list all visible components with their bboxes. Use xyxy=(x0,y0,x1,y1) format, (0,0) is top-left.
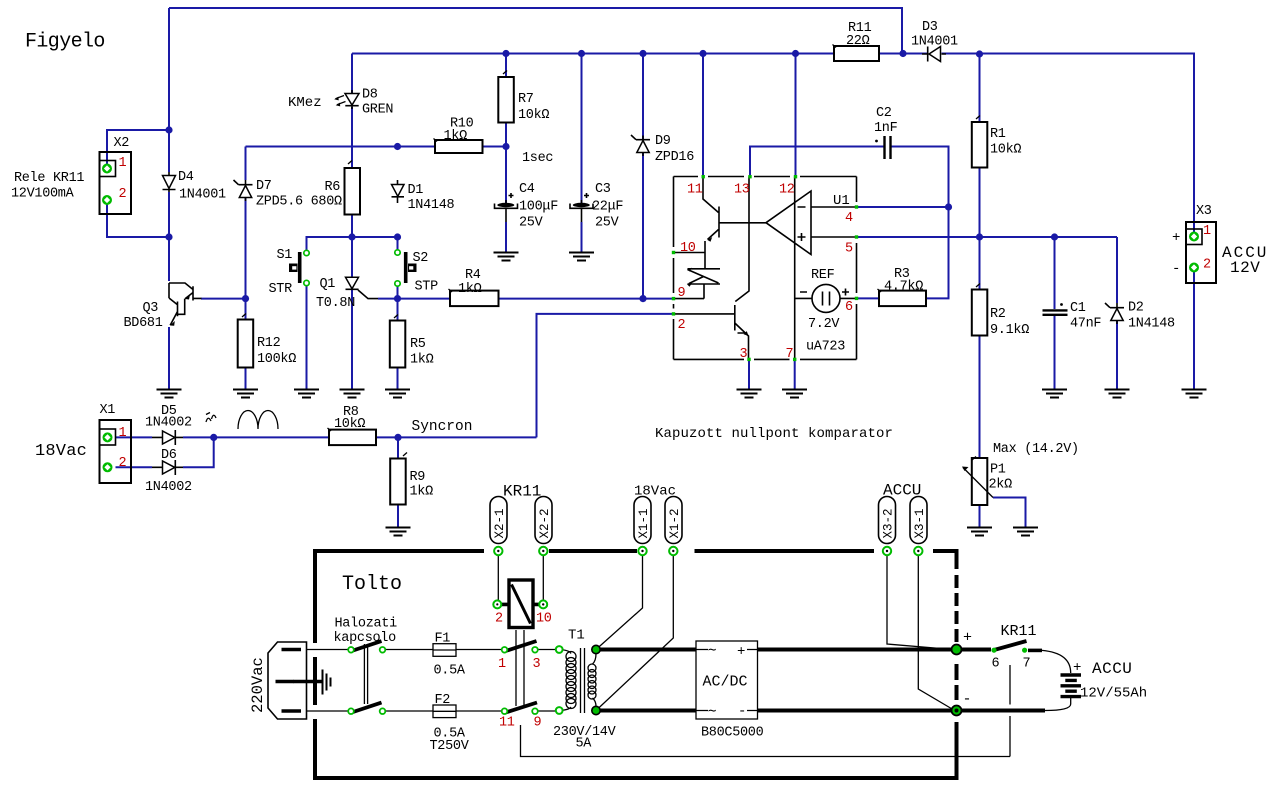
svg-text:2: 2 xyxy=(678,318,686,333)
wire R2 to P1 xyxy=(979,336,981,459)
wire D7 bottom lead crossing y237 xyxy=(245,198,247,299)
junction node rail-D9 xyxy=(639,50,646,57)
svg-text:1kΩ: 1kΩ xyxy=(444,129,468,144)
symbols layer xyxy=(100,45,1217,536)
half-wave glyph xyxy=(206,413,216,423)
ground U1 pin7 xyxy=(782,390,807,398)
pin X2-1 xyxy=(102,164,112,174)
wire U1 pin4 to feedback node xyxy=(857,206,949,208)
tolto layer xyxy=(268,549,1081,780)
pin U1-11 xyxy=(702,175,705,178)
svg-text:uA723: uA723 xyxy=(806,340,845,355)
wire node to R8 xyxy=(214,436,329,438)
wire C4 to ground xyxy=(505,222,507,253)
ground D2 xyxy=(1105,390,1130,398)
wire Syncron horizontal xyxy=(398,436,537,438)
220Vac plug body xyxy=(268,642,307,719)
svg-text:4.7kΩ: 4.7kΩ xyxy=(884,280,923,295)
thyristor Q1 xyxy=(346,277,379,298)
svg-text:47nF: 47nF xyxy=(1070,317,1101,332)
svg-text:1: 1 xyxy=(119,156,127,171)
wire X3-2 oval to plus node xyxy=(887,556,953,650)
pin S1 top xyxy=(304,250,309,255)
svg-text:100μF: 100μF xyxy=(519,200,558,215)
wire net y146 from D7 corner to R10 xyxy=(246,146,436,148)
resistor R3 xyxy=(878,289,927,306)
wire F1 to relay contact 1 xyxy=(456,649,501,651)
svg-text:10kΩ: 10kΩ xyxy=(334,417,365,432)
svg-text:5: 5 xyxy=(845,242,853,257)
wire R9 to ground xyxy=(397,505,399,528)
oval terminal X2-2 xyxy=(535,497,552,556)
junction node Q1 gate-R4-R5 xyxy=(394,295,401,302)
wire R7 top lead xyxy=(505,54,507,78)
U1 internal output transistor xyxy=(674,177,767,253)
svg-text:R9: R9 xyxy=(410,470,426,485)
fuse F1 xyxy=(433,644,456,657)
svg-text:D2: D2 xyxy=(1128,301,1144,316)
contact mains switch upper right xyxy=(380,647,386,653)
svg-text:5A: 5A xyxy=(576,737,593,752)
svg-text:R6: R6 xyxy=(325,180,341,195)
wire net y237 S1-to-S2 section xyxy=(307,237,398,253)
wire R7 bottom to C4 xyxy=(505,123,507,204)
wire U1 pin3 to ground xyxy=(748,359,750,389)
svg-text:S1: S1 xyxy=(277,248,293,263)
wire relay 3 to transformer xyxy=(538,649,556,651)
wire Q1 gate to node xyxy=(378,298,398,300)
pin U1-9 xyxy=(672,297,675,300)
svg-text:REF: REF xyxy=(811,268,835,283)
ground P1 wiper xyxy=(1013,528,1038,536)
wire U1 pin7 to ground xyxy=(794,359,796,389)
U1 internal lower transistor xyxy=(674,177,750,360)
svg-text:+: + xyxy=(737,644,745,660)
svg-text:KR11: KR11 xyxy=(503,483,541,501)
pin relay coil 2 xyxy=(493,600,501,608)
pin T1 primary top xyxy=(556,646,563,653)
junction node rail-R1 xyxy=(976,50,983,57)
potentiometer P1 xyxy=(962,457,993,506)
sine waveform symbol xyxy=(238,411,278,430)
wire R12 leads xyxy=(245,299,247,389)
relay mechanical link xyxy=(516,630,524,706)
contact mains switch upper left xyxy=(348,647,354,653)
svg-text:R12: R12 xyxy=(257,336,281,351)
pin T1 secondary top xyxy=(592,645,600,653)
wire D2 top lead xyxy=(1116,237,1118,303)
pin S1 bottom xyxy=(304,280,309,285)
wire D8 top lead xyxy=(351,54,353,94)
wire C2 right lead down to R3 corner xyxy=(891,147,949,299)
wire X1 pin1 to D5 xyxy=(116,436,153,438)
svg-text:6: 6 xyxy=(845,300,853,315)
switch KR11 contact lever xyxy=(994,641,1027,650)
battery ACCU 12V/55Ah xyxy=(1061,675,1082,697)
svg-text:R2: R2 xyxy=(990,307,1006,322)
ground X3 xyxy=(1182,390,1207,398)
connector X1 xyxy=(100,420,132,483)
wire Q3 base to node xyxy=(201,298,246,300)
svg-text:D3: D3 xyxy=(922,20,938,35)
switch S2 xyxy=(406,252,417,283)
pin T1 secondary bottom xyxy=(592,706,600,714)
wire D7 top lead xyxy=(245,147,247,181)
svg-text:∼: ∼ xyxy=(708,704,716,720)
fuse F2 xyxy=(433,705,456,718)
wire D9 bottom lead to pin9 node xyxy=(642,153,644,299)
wire X2 pin1 riser to top-rail junction xyxy=(107,130,169,169)
pin X3-2 xyxy=(1189,263,1199,273)
oval terminal X1-2 xyxy=(665,497,682,556)
wire X3-1 oval to minus node xyxy=(918,556,953,710)
svg-text:X1-2: X1-2 xyxy=(668,508,682,538)
wire battery minus to minus line xyxy=(1045,698,1071,711)
oval terminal X3-1 xyxy=(910,497,927,556)
ground C3 xyxy=(569,253,594,261)
svg-text:9: 9 xyxy=(534,716,542,731)
ground C4 xyxy=(494,253,519,261)
svg-text:10kΩ: 10kΩ xyxy=(518,108,549,123)
zener diode D7 xyxy=(234,180,253,201)
wire D6 to node riser xyxy=(183,437,214,467)
svg-text:1: 1 xyxy=(498,657,506,672)
wire X2-2 oval to relay pin10 xyxy=(542,556,544,604)
relay KR11 coil xyxy=(494,580,548,628)
transformer T1 core xyxy=(581,648,585,713)
wire Q1 anode xyxy=(351,237,353,277)
svg-text:ACCU: ACCU xyxy=(883,482,921,500)
wire main +rail y53.5 xyxy=(352,54,1194,237)
svg-text:Q1: Q1 xyxy=(320,277,336,292)
op-amp U1 triangle xyxy=(766,191,857,255)
svg-text:+: + xyxy=(963,630,972,647)
mains switch upper lever xyxy=(350,641,382,652)
junction node rail-pin11 xyxy=(699,50,706,57)
svg-text:7: 7 xyxy=(786,347,794,362)
wire U1 pin5 net y237 xyxy=(857,236,1118,238)
svg-text:1: 1 xyxy=(1203,224,1211,239)
resistor R10 xyxy=(434,139,483,154)
svg-text:3: 3 xyxy=(533,657,541,672)
wire R4 left lead xyxy=(398,298,451,300)
resistor R7 xyxy=(498,71,514,123)
wire D9 top lead xyxy=(642,54,644,140)
wire D4 column lower xyxy=(168,192,170,237)
wire switch to F2 xyxy=(385,710,433,712)
wire X1-2 oval to T1 xyxy=(596,556,673,711)
svg-text:Kapuzott nullpont komparator: Kapuzott nullpont komparator xyxy=(655,426,893,442)
mains switch link xyxy=(364,644,367,704)
wire P1 bottom to ground xyxy=(979,505,981,527)
zener diode D9 xyxy=(631,135,650,156)
svg-text:ZPD5.6 680Ω: ZPD5.6 680Ω xyxy=(256,195,342,210)
svg-text:1: 1 xyxy=(119,426,127,441)
svg-text:ACCU: ACCU xyxy=(1092,660,1132,678)
wire U1 pin12 column xyxy=(795,54,797,177)
svg-text:12V: 12V xyxy=(1230,259,1260,277)
svg-text:3: 3 xyxy=(740,347,748,362)
pin X2-2 xyxy=(102,195,112,205)
svg-text:10: 10 xyxy=(536,612,552,627)
wire D4 column upper xyxy=(168,8,170,172)
svg-text:D4: D4 xyxy=(178,170,194,185)
pin relay coil 10 xyxy=(539,600,547,608)
Tolto enclosure right edge dashed xyxy=(955,549,959,780)
wire relay link stub to minus net xyxy=(521,725,1011,757)
pin U1-7 xyxy=(793,358,796,361)
contact relay 11 xyxy=(502,708,508,714)
junction node D1-S2 y237 xyxy=(394,233,401,240)
junction node X2-D4-Q3 y237 xyxy=(165,233,172,240)
wire S2 top lead xyxy=(397,237,399,253)
ground Q3 xyxy=(157,390,182,398)
wire R9 top lead xyxy=(397,437,399,458)
ground R9 xyxy=(386,528,411,536)
relay contact upper lever xyxy=(504,641,537,652)
ground S1 xyxy=(294,390,319,398)
wire X1-1 oval to T1 xyxy=(596,556,643,650)
wire Syncron riser to U1 pin2 xyxy=(537,314,674,438)
svg-text:STP: STP xyxy=(415,280,439,295)
switch S1 xyxy=(289,252,300,283)
earth ground symbol xyxy=(323,670,331,695)
ground C1 xyxy=(1042,390,1067,398)
transformer T1 secondary winding xyxy=(588,654,596,707)
pin U1-5 xyxy=(855,235,858,238)
U1 internal sense resistor xyxy=(674,253,721,299)
svg-text:Syncron: Syncron xyxy=(412,419,473,435)
svg-text:R7: R7 xyxy=(518,92,534,107)
junction node rail-pin12 xyxy=(792,50,799,57)
svg-text:18Vac: 18Vac xyxy=(35,442,87,461)
junction node X2/top-rail xyxy=(165,126,172,133)
junction node rail-C3 xyxy=(578,50,585,57)
220Vac plug prongs xyxy=(276,650,302,712)
svg-text:GREN: GREN xyxy=(362,103,393,118)
svg-text:1N4002: 1N4002 xyxy=(145,480,192,495)
mains switch lower lever xyxy=(350,703,382,714)
svg-text:13: 13 xyxy=(734,183,750,198)
ground R12 xyxy=(233,390,258,398)
wire R10 right lead xyxy=(483,146,507,148)
junction node rail-topwire xyxy=(899,50,906,57)
resistor R12 xyxy=(238,314,254,368)
mains switch upper wire xyxy=(307,649,349,651)
wire contact7 region to minus net xyxy=(1009,665,1011,757)
svg-text:kapcsolo: kapcsolo xyxy=(334,631,397,646)
svg-text:X2-2: X2-2 xyxy=(538,508,552,538)
resistor R5 xyxy=(390,315,406,368)
svg-text:F2: F2 xyxy=(435,693,451,708)
svg-text:11: 11 xyxy=(687,183,703,198)
svg-text:X3-1: X3-1 xyxy=(913,508,927,538)
ground U1 pin3 xyxy=(737,390,762,398)
wire D8 to R6 crossing y146 xyxy=(351,107,353,168)
svg-text:1kΩ: 1kΩ xyxy=(410,353,434,368)
wire F2 to relay contact 11 xyxy=(456,710,501,712)
wire S1 bottom to ground xyxy=(306,283,308,389)
svg-text:ZPD16: ZPD16 xyxy=(655,150,694,165)
svg-text:D1: D1 xyxy=(408,183,424,198)
junction node R10-R7-C4 xyxy=(502,143,509,150)
resistor R8 xyxy=(328,428,377,445)
resistor R4 xyxy=(449,289,499,306)
svg-text:X3: X3 xyxy=(1196,204,1212,219)
pin X3-1 xyxy=(1189,232,1199,242)
svg-text:D9: D9 xyxy=(655,134,671,149)
pins layer xyxy=(102,164,1199,715)
svg-text:KR11: KR11 xyxy=(1001,623,1037,640)
svg-text:D6: D6 xyxy=(161,448,177,463)
connector X3 xyxy=(1186,222,1216,283)
wire Q3 emitter to ground xyxy=(168,327,170,389)
wire R6 bottom to node y237 xyxy=(351,215,353,238)
svg-text:F1: F1 xyxy=(435,632,451,647)
earth wire from plug xyxy=(293,680,322,684)
wire KR11 to battery plus xyxy=(1042,650,1071,673)
svg-text:12: 12 xyxy=(779,183,795,198)
pin T1 primary bottom xyxy=(556,707,563,714)
svg-text:2: 2 xyxy=(119,187,127,202)
junction node C2-pin4-R3 xyxy=(945,203,952,210)
svg-text:B80C5000: B80C5000 xyxy=(701,726,764,741)
svg-text:R1: R1 xyxy=(990,127,1006,142)
svg-text:R4: R4 xyxy=(465,268,481,283)
wire P1 wiper to ground xyxy=(993,498,1026,528)
relay contact lower lever xyxy=(504,703,537,714)
wire X3 pin2 to ground xyxy=(1193,268,1195,390)
resistor R9 xyxy=(390,453,407,505)
svg-text:Max (14.2V): Max (14.2V) xyxy=(993,442,1079,457)
diode D5 xyxy=(152,430,183,445)
wire U1 pin13 riser and C2 left lead xyxy=(750,147,885,177)
contact mains switch lower right xyxy=(380,708,386,714)
capacitor C3 xyxy=(570,193,593,222)
svg-text:1N4001: 1N4001 xyxy=(179,188,226,203)
diode D2 xyxy=(1105,303,1124,324)
junction node D5-D6 xyxy=(210,434,217,441)
Tolto enclosure bottom edge xyxy=(313,776,959,780)
junction node rail-R7 xyxy=(502,50,509,57)
wire top rail from X2 column to right descent xyxy=(169,8,902,54)
contact relay 9 xyxy=(532,708,538,714)
svg-text:11: 11 xyxy=(499,716,515,731)
pin U1-6 xyxy=(855,297,858,300)
svg-text:∼: ∼ xyxy=(708,643,716,659)
transistor Q3 xyxy=(169,283,202,326)
node plus xyxy=(952,645,962,655)
wire X1 pin2 to D6 xyxy=(116,466,153,468)
svg-text:4: 4 xyxy=(845,211,853,226)
svg-text:22μF: 22μF xyxy=(592,200,623,215)
svg-text:2: 2 xyxy=(1203,258,1211,273)
svg-text:Rele KR11: Rele KR11 xyxy=(14,171,84,186)
wire R8 right lead xyxy=(376,436,398,438)
diode D6 xyxy=(152,460,183,475)
junction node R6 y237 xyxy=(348,233,355,240)
svg-text:10: 10 xyxy=(680,241,696,256)
oval terminal X1-1 xyxy=(634,497,651,556)
node minus xyxy=(952,706,962,716)
svg-text:AC/DC: AC/DC xyxy=(703,674,748,691)
resistor R11 xyxy=(833,45,880,62)
wire T1 secondary to AC/DC plus side xyxy=(596,648,696,652)
svg-text:T250V: T250V xyxy=(430,739,470,754)
resistor R6 xyxy=(345,161,361,215)
pin U1-10 xyxy=(672,251,675,254)
wire T1 secondary to AC/DC minus side xyxy=(596,709,696,713)
wire R5 leads xyxy=(397,299,399,389)
capacitor C2 xyxy=(875,136,890,159)
wire R4 right lead to pin9 node xyxy=(499,298,644,300)
wire R2 top lead xyxy=(979,237,981,290)
svg-text:X3-2: X3-2 xyxy=(882,508,896,538)
svg-text:2kΩ: 2kΩ xyxy=(989,478,1013,493)
wire S2 bottom lead xyxy=(397,284,399,299)
svg-text:BD681: BD681 xyxy=(124,316,163,331)
pin U1-4 xyxy=(855,205,858,208)
U1 REF source xyxy=(795,284,857,312)
pin X1-1 xyxy=(103,432,113,442)
svg-text:D8: D8 xyxy=(362,88,378,103)
svg-text:2: 2 xyxy=(119,456,127,471)
wire R1 bottom to pin5 net xyxy=(979,168,981,238)
pin S2 bottom xyxy=(395,281,400,286)
wire AC/DC plus output to plus node xyxy=(758,648,992,652)
wire U1 pin11 column xyxy=(702,54,704,177)
capacitor C4 xyxy=(495,193,518,222)
ground P1 xyxy=(967,528,992,536)
svg-text:100kΩ: 100kΩ xyxy=(257,352,296,367)
svg-text:1N4148: 1N4148 xyxy=(1128,317,1175,332)
pin S2 top xyxy=(395,250,400,255)
svg-text:1kΩ: 1kΩ xyxy=(458,282,482,297)
svg-text:KMez: KMez xyxy=(288,95,322,111)
svg-text:-: - xyxy=(738,704,746,720)
wire C1 to ground xyxy=(1054,316,1056,389)
resistor R2 xyxy=(972,284,988,336)
Tolto enclosure left edge xyxy=(313,549,317,780)
capacitor C1 xyxy=(1043,303,1068,315)
wire R1 top lead xyxy=(979,54,981,122)
wire C3 to ground xyxy=(581,222,583,253)
svg-text:9: 9 xyxy=(678,286,686,301)
svg-text:6: 6 xyxy=(992,657,1000,672)
diode D4 xyxy=(163,172,176,192)
wire X2 pin2 to node at x169 xyxy=(107,200,169,237)
svg-text:-: - xyxy=(963,691,972,708)
LED D8 xyxy=(334,90,359,109)
oval terminal X2-1 xyxy=(490,497,507,556)
svg-text:9.1kΩ: 9.1kΩ xyxy=(990,323,1029,338)
pin U1-13 xyxy=(748,175,751,178)
U1 internal pin12-pin7 vertical xyxy=(794,177,796,360)
svg-text:R5: R5 xyxy=(410,337,426,352)
wire Q3 collector xyxy=(168,237,170,281)
wire relay 9 to transformer xyxy=(538,710,556,712)
svg-text:U1: U1 xyxy=(833,193,850,209)
svg-text:1nF: 1nF xyxy=(874,121,898,136)
Tolto enclosure top edge xyxy=(313,549,955,553)
svg-text:C2: C2 xyxy=(876,106,892,121)
wire C1 top lead xyxy=(1054,237,1056,309)
contact KR11 7 xyxy=(1022,648,1027,653)
svg-text:1sec: 1sec xyxy=(522,151,553,166)
wire X2-1 oval to relay pin2 xyxy=(497,556,499,604)
svg-text:25V: 25V xyxy=(595,216,620,231)
svg-text:+: + xyxy=(1172,230,1180,246)
